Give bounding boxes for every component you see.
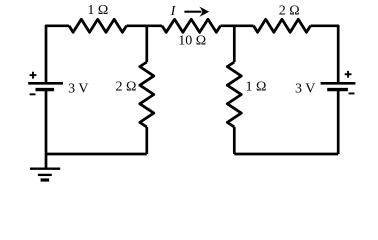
- resistor 1-ohm vertical zigzag: [227, 62, 241, 127]
- plus sign left battery: [30, 72, 37, 79]
- wire: top rail between 10-ohm and 2-ohm resistor: [221, 24, 254, 27]
- wire: right battery bottom lead: [337, 90, 340, 154]
- wire: bottom-right rail: [234, 153, 338, 156]
- resistor 2-ohm horizontal zigzag: [254, 19, 311, 32]
- ground: bar 1: [30, 168, 60, 170]
- battery V2 3V right: short negative plate: [327, 88, 348, 91]
- wire: left battery top lead and top-left corner: [46, 26, 69, 84]
- battery V1 3V left: short negative plate: [36, 88, 55, 91]
- battery V1 3V left: long positive plate: [28, 82, 63, 85]
- ground: bar 3: [41, 178, 50, 181]
- resistor R1 1-ohm horizontal zigzag: [69, 19, 127, 32]
- plus sign right battery: [345, 71, 352, 78]
- svg-text:10 Ω: 10 Ω: [178, 34, 206, 49]
- wire: top rail between R1 and 10-ohm resistor: [127, 24, 163, 27]
- svg-text:2 Ω: 2 Ω: [279, 4, 300, 19]
- resistor 10-ohm horizontal zigzag: [162, 19, 221, 32]
- wire: 1-ohm vertical resistor top lead: [233, 26, 236, 62]
- wire: 2-ohm vertical resistor top lead: [145, 26, 148, 62]
- ground: bar 2: [38, 174, 52, 176]
- ground: stem: [45, 154, 48, 168]
- svg-text:3 V: 3 V: [68, 81, 88, 96]
- wire: bottom-left rail: [46, 153, 147, 156]
- wire: 1-ohm vertical resistor bottom lead: [233, 127, 236, 154]
- minus sign right battery: [349, 93, 355, 95]
- minus sign left battery: [30, 93, 36, 95]
- svg-text:3 V: 3 V: [295, 81, 315, 96]
- wire: 2-ohm vertical resistor bottom lead: [145, 127, 148, 154]
- wire: top-right corner down to right battery: [311, 26, 339, 84]
- wire: left battery bottom lead: [45, 90, 48, 154]
- svg-text:2 Ω: 2 Ω: [115, 79, 136, 94]
- resistor 2-ohm vertical zigzag: [140, 62, 154, 127]
- current direction arrow: [184, 7, 209, 17]
- svg-text:1 Ω: 1 Ω: [245, 79, 266, 94]
- battery V2 3V right: long positive plate: [321, 82, 356, 85]
- svg-text:I: I: [170, 4, 177, 19]
- svg-text:1 Ω: 1 Ω: [87, 3, 108, 18]
